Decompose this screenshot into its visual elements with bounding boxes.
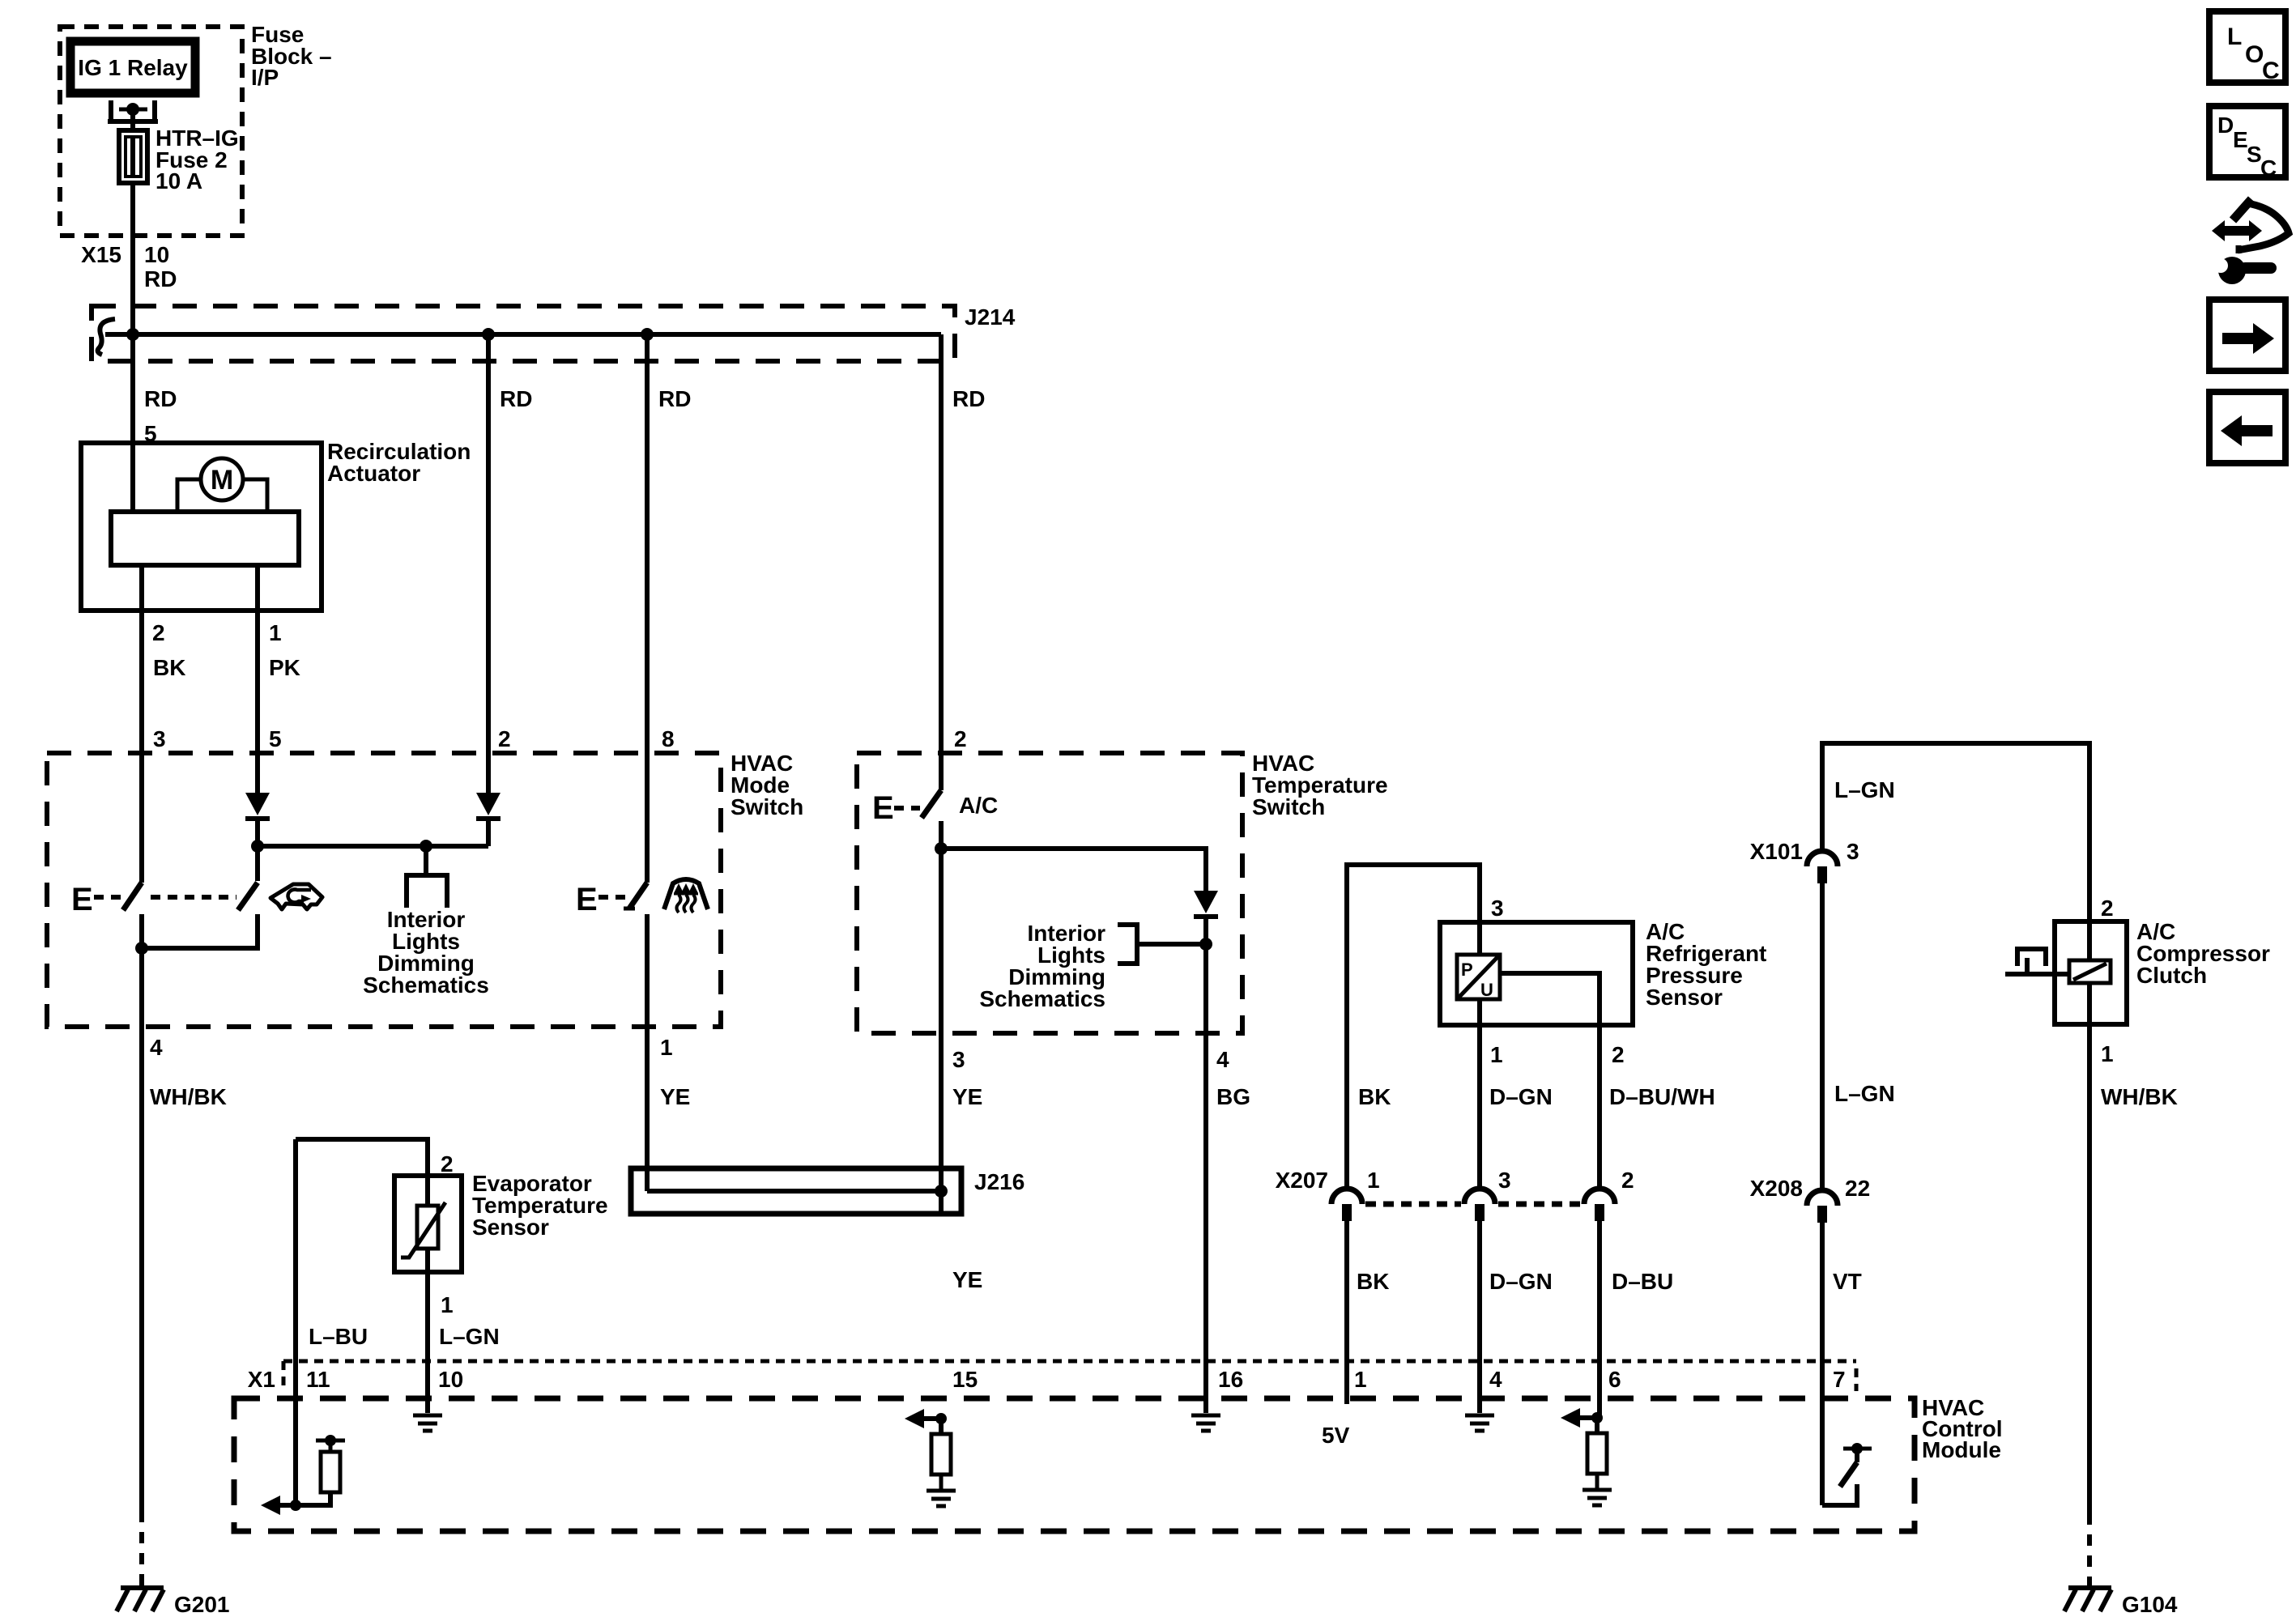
svg-text:3: 3 (1847, 839, 1859, 864)
wire RD branch 1 label (144, 386, 177, 446)
svg-text:5: 5 (269, 726, 282, 751)
icon nav arrows wrench (2212, 199, 2289, 284)
ground G201 (117, 1588, 230, 1617)
svg-text:E: E (576, 882, 598, 917)
wire pin 11 L-BU (293, 1139, 298, 1505)
wire RD branch 3 (647, 334, 691, 883)
HVAC temperature switch dashed box (857, 753, 1242, 1033)
recirculation actuator box (81, 443, 322, 611)
svg-text:X208: X208 (1750, 1176, 1803, 1201)
svg-text:Schematics: Schematics (979, 986, 1105, 1011)
svg-text:4: 4 (1216, 1047, 1229, 1072)
wire color labels (1358, 1084, 1715, 1109)
pin 16 internal: ground (1191, 1398, 1220, 1431)
label HTR-IG Fuse 2 10 A (155, 126, 239, 194)
svg-text:VT: VT (1833, 1269, 1862, 1294)
wire WH/BK to G104 (2087, 1024, 2092, 1585)
svg-text:L–GN: L–GN (1834, 1081, 1895, 1106)
wire pin 1 PK (258, 565, 300, 793)
svg-text:Sensor: Sensor (472, 1215, 549, 1240)
svg-text:WH/BK: WH/BK (150, 1084, 227, 1109)
connector X207 (1276, 1168, 1634, 1193)
switch S1 E linkage (71, 882, 236, 917)
switch S1 blade (123, 883, 142, 910)
svg-text:L–GN: L–GN (439, 1324, 500, 1349)
icon arrow right (2209, 300, 2285, 371)
defrost icon (664, 879, 708, 913)
svg-text:2: 2 (1612, 1042, 1625, 1067)
svg-text:11: 11 (306, 1367, 330, 1392)
wire L-GN top loop (1822, 743, 2089, 921)
wire pin 2 BK (142, 565, 185, 883)
node A/C out (935, 842, 948, 855)
svg-text:8: 8 (662, 726, 675, 751)
svg-text:2: 2 (1621, 1168, 1634, 1193)
svg-text:5V: 5V (1322, 1423, 1350, 1448)
pin labels mode switch top (498, 726, 675, 751)
svg-text:3: 3 (153, 726, 166, 751)
svg-text:YE: YE (660, 1084, 690, 1109)
svg-text:Actuator: Actuator (327, 461, 420, 486)
connector X208 pin 22 (1750, 1176, 1871, 1223)
node dimmer tap (420, 840, 432, 853)
motor M (201, 458, 243, 500)
node relay output (126, 103, 139, 116)
svg-text:3: 3 (1498, 1168, 1511, 1193)
svg-text:3: 3 (1491, 896, 1504, 921)
icon arrow left (2209, 392, 2285, 463)
pin label clutch 1 (2101, 1041, 2178, 1109)
svg-text:BK: BK (153, 655, 185, 680)
svg-text:X1: X1 (248, 1367, 275, 1392)
wire relay to bus (130, 109, 135, 512)
svg-text:YE: YE (952, 1267, 982, 1292)
pin labels mode switch bottom (150, 1035, 690, 1109)
X207 dashed links (1365, 1202, 1581, 1207)
wire VT (1822, 1223, 1862, 1505)
node diode tie left (251, 840, 264, 853)
relay IG 1 Relay (70, 41, 195, 93)
svg-text:22: 22 (1845, 1176, 1870, 1201)
svg-text:I/P: I/P (251, 65, 279, 90)
svg-text:O: O (2245, 41, 2264, 68)
switch S4 A/C (872, 790, 998, 826)
svg-text:X207: X207 (1276, 1168, 1328, 1193)
svg-text:C: C (2260, 155, 2277, 181)
label Fuse Block - I/P (251, 22, 332, 90)
wire pin 10 L-GN (425, 1272, 430, 1413)
svg-text:1: 1 (1354, 1367, 1367, 1392)
HVAC mode switch dashed box (47, 753, 721, 1027)
wire diode tie (258, 844, 488, 849)
svg-text:2: 2 (498, 726, 511, 751)
connector X15 pin 10 (81, 242, 169, 267)
node bus branch 3 (641, 328, 654, 341)
wire RD branch 4 (941, 334, 985, 790)
svg-text:10: 10 (438, 1367, 463, 1392)
relay contact bracket (108, 100, 158, 121)
svg-text:3: 3 (952, 1047, 965, 1072)
svg-text:2: 2 (2101, 896, 2114, 921)
svg-text:Switch: Switch (1252, 794, 1325, 819)
svg-text:BG: BG (1216, 1084, 1250, 1109)
svg-text:U: U (1480, 980, 1493, 1000)
X207 pin 2 arc (1584, 1189, 1615, 1221)
svg-text:1: 1 (1490, 1042, 1503, 1067)
switch S2 blade recirc (238, 883, 258, 910)
svg-text:6: 6 (1608, 1367, 1621, 1392)
wire bus J214 (105, 332, 941, 337)
svg-text:RD: RD (144, 266, 177, 291)
svg-text:4: 4 (1489, 1367, 1502, 1392)
switch S3 blade (624, 883, 647, 908)
svg-text:1: 1 (2101, 1041, 2114, 1066)
node J216 (935, 1185, 948, 1198)
X207 pin 3 arc (1464, 1189, 1495, 1221)
diode D3 (1194, 891, 1218, 1398)
svg-text:BK: BK (1358, 1084, 1391, 1109)
wire evap loop (296, 1139, 428, 1176)
A/C compressor clutch box (2055, 921, 2127, 1024)
svg-text:G201: G201 (174, 1592, 230, 1617)
svg-text:D–GN: D–GN (1489, 1269, 1553, 1294)
svg-text:E: E (2233, 127, 2248, 152)
splice pack J216 box (631, 1168, 961, 1214)
X207 pin 1 arc (1331, 1189, 1362, 1221)
wire sensor pin1 (1477, 922, 1482, 1189)
HVAC control module dashed box (234, 1398, 1915, 1531)
svg-text:D–BU/WH: D–BU/WH (1609, 1084, 1715, 1109)
pin 11 internal: arrow resistor (261, 1435, 345, 1515)
wire S1 lower (139, 914, 144, 1511)
node bus branch 2 (482, 328, 495, 341)
wire S3 lower YE (645, 914, 650, 1191)
svg-text:IG 1 Relay: IG 1 Relay (78, 55, 188, 80)
svg-text:RD: RD (952, 386, 985, 411)
icon LOC (2209, 11, 2285, 84)
pin 15 internal: arrow resistor ground (905, 1409, 956, 1506)
wires below X207 (1347, 1221, 1600, 1418)
svg-text:L: L (2227, 23, 2242, 50)
svg-text:1: 1 (660, 1035, 673, 1060)
svg-text:4: 4 (150, 1035, 163, 1060)
node bus-fuse (126, 328, 139, 341)
svg-text:J216: J216 (974, 1169, 1024, 1194)
svg-text:1: 1 (269, 620, 282, 645)
icon DESC (2209, 106, 2285, 181)
svg-text:7: 7 (1833, 1367, 1846, 1392)
wire sensor pin2 (1500, 973, 1600, 1189)
interior lights bracket 2 (1118, 925, 1206, 964)
splice curl (98, 319, 115, 355)
pin labels sensor bottom (1490, 1042, 1625, 1067)
diode D2 (476, 793, 501, 846)
connector X101 pin 3 (1750, 839, 1859, 883)
ground G104 (2064, 1588, 2178, 1617)
svg-text:Clutch: Clutch (2136, 963, 2207, 988)
svg-text:L–GN: L–GN (1834, 777, 1895, 802)
pin 7 internal: transistor switch (1822, 1443, 1872, 1505)
svg-text:Module: Module (1922, 1437, 2001, 1462)
svg-text:C: C (2262, 57, 2280, 84)
pin labels temp switch bottom (952, 1047, 1250, 1109)
svg-text:X15: X15 (81, 242, 121, 267)
label interior lights dimming schematics (363, 907, 489, 998)
svg-text:PK: PK (269, 655, 300, 680)
wire through clutch (2087, 921, 2092, 1024)
wire A/C to diode (941, 849, 1206, 891)
svg-text:J214: J214 (965, 304, 1016, 330)
svg-text:1: 1 (1367, 1168, 1380, 1193)
svg-text:WH/BK: WH/BK (2101, 1084, 2178, 1109)
diode D1 (245, 793, 270, 881)
svg-text:E: E (71, 882, 93, 917)
svg-text:2: 2 (954, 726, 967, 751)
svg-text:Sensor: Sensor (1646, 985, 1723, 1010)
svg-text:L–BU: L–BU (309, 1324, 368, 1349)
wire S4 lower (939, 821, 944, 1214)
wire 5V loop top (1347, 865, 1480, 1189)
svg-text:D–GN: D–GN (1489, 1084, 1553, 1109)
actuator body (111, 512, 299, 565)
wire S2 lower to S1 (142, 914, 258, 948)
clutch coil (2069, 960, 2111, 983)
svg-text:D: D (2217, 113, 2234, 138)
thermistor (401, 1202, 445, 1257)
svg-text:G104: G104 (2122, 1592, 2178, 1617)
svg-text:10 A: 10 A (155, 168, 202, 194)
wire bus J216 (647, 1189, 941, 1194)
svg-text:RD: RD (144, 386, 177, 411)
wire WH/BK to G201 (139, 1511, 144, 1585)
fuse HTR-IG Fuse 2 10A (119, 130, 147, 183)
svg-text:X101: X101 (1750, 839, 1803, 864)
pin 10 internal: ground (413, 1415, 442, 1431)
motor bracket (177, 479, 267, 512)
svg-text:A/C: A/C (959, 793, 998, 818)
svg-text:RD: RD (658, 386, 691, 411)
pin labels evap (309, 1151, 500, 1349)
svg-text:Switch: Switch (731, 794, 803, 819)
pin 6 internal: arrow resistor ground (1561, 1408, 1612, 1505)
wire color labels below X207 (1357, 1269, 1673, 1294)
svg-text:2: 2 (441, 1151, 454, 1177)
svg-text:2: 2 (152, 620, 165, 645)
node S1-S2 tie (135, 942, 148, 955)
fuse block dashed box (60, 27, 242, 236)
evaporator temperature sensor box (394, 1176, 462, 1272)
car icon (270, 884, 322, 909)
connector X1 dotted line (248, 1361, 1856, 1392)
switch S3 defrost E (576, 882, 627, 917)
clutch mech symbol (2005, 949, 2069, 974)
svg-text:P: P (1461, 960, 1473, 980)
svg-text:10: 10 (144, 242, 169, 267)
wire RD branch 2 (488, 334, 532, 793)
pressure sensor box (1440, 922, 1633, 1025)
svg-text:S: S (2247, 142, 2262, 167)
svg-text:Schematics: Schematics (363, 972, 489, 998)
svg-text:RD: RD (500, 386, 532, 411)
svg-text:16: 16 (1218, 1367, 1243, 1392)
interior lights bracket (407, 846, 447, 908)
svg-text:M: M (211, 465, 233, 496)
svg-text:E: E (872, 790, 894, 826)
wire L-GN lower (1822, 883, 1895, 1190)
P/U transducer (1457, 955, 1500, 1000)
pin 4 internal: ground (1465, 1415, 1494, 1431)
splice pack J214 dashed box (92, 306, 955, 361)
label interior lights dimming schematics 2 (979, 921, 1105, 1011)
svg-text:15: 15 (952, 1367, 978, 1392)
svg-text:YE: YE (952, 1084, 982, 1109)
svg-text:BK: BK (1357, 1269, 1389, 1294)
wire through sensor (425, 1176, 430, 1272)
svg-text:1: 1 (441, 1292, 454, 1317)
node dimmer tap 2 (1199, 938, 1212, 951)
svg-text:D–BU: D–BU (1612, 1269, 1673, 1294)
module pin numbers (306, 1367, 1846, 1392)
